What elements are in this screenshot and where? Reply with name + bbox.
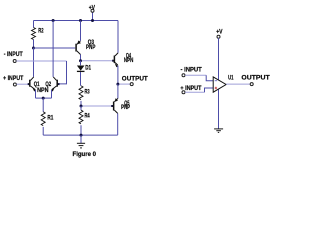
svg-text:R3: R3 — [85, 89, 91, 96]
wire Q2 emitter lead — [51, 90, 53, 98]
wire R1 bottom lead — [42, 127, 44, 135]
svg-text:OUTPUT: OUTPUT — [122, 75, 148, 82]
wire Q3 base — [34, 47, 76, 49]
wire -INPUT vertical to Q2 base — [58, 61, 67, 84]
terminal +INPUT right — [182, 91, 185, 94]
node rail-Q2col — [52, 19, 55, 22]
wire +V to op-amp — [218, 38, 220, 80]
wire R4 bottom lead — [80, 125, 82, 135]
node rail-Vstub — [91, 19, 94, 22]
node tail — [42, 97, 45, 100]
svg-text:D1: D1 — [85, 65, 91, 72]
node output — [116, 83, 119, 86]
diode D1 — [77, 66, 85, 72]
transistor Q4 — [114, 53, 119, 67]
wire Q3 emitter to rail — [80, 21, 82, 41]
wire Q2 collector column — [52, 21, 54, 77]
svg-text:+ INPUT: + INPUT — [3, 75, 23, 82]
terminal OUTPUT left — [130, 83, 133, 86]
wire Q4 emitter to output — [117, 66, 119, 85]
wire op-amp to ground — [218, 89, 220, 128]
resistor R1 — [41, 112, 45, 126]
wire Q5 collector down — [117, 113, 119, 135]
terminal -INPUT left — [13, 60, 16, 63]
transistor Q3 — [75, 40, 81, 54]
terminal +V left — [91, 9, 94, 12]
wire D1 cathode to R3 — [80, 72, 82, 86]
wire R3 bottom lead — [80, 101, 82, 106]
op-amp U1 — [213, 77, 226, 92]
svg-text:R1: R1 — [47, 114, 53, 121]
wire R4 top lead — [80, 106, 82, 110]
wire output stub — [119, 83, 130, 85]
terminal +INPUT left — [13, 83, 16, 86]
svg-text:PNP: PNP — [86, 44, 95, 51]
node ground — [80, 134, 83, 137]
wire Q1 emitter lead — [35, 90, 37, 98]
svg-text:R2: R2 — [38, 28, 44, 35]
svg-text:U1: U1 — [228, 75, 234, 82]
svg-text:+V: +V — [89, 5, 96, 12]
resistor R3 — [79, 86, 83, 100]
transistor Q2 — [51, 77, 58, 92]
svg-text:+V: +V — [216, 29, 223, 36]
ground left — [77, 135, 85, 148]
transistor Q5 — [113, 98, 118, 113]
wire bottom rail — [43, 134, 118, 136]
wire Q5 base — [83, 105, 113, 107]
node R3/R4/Q5base — [80, 105, 83, 108]
svg-text:Figure 0: Figure 0 — [73, 151, 97, 158]
wire top +V rail — [34, 20, 119, 22]
wire -input to op-amp — [185, 74, 206, 76]
svg-text:NPN: NPN — [37, 87, 49, 94]
wire right branch top — [117, 21, 119, 53]
node rail-Q3col — [79, 19, 82, 22]
svg-text:- INPUT: - INPUT — [181, 66, 202, 73]
resistor R2 — [32, 28, 36, 40]
wire +input to op-amp — [185, 91, 204, 93]
wire R2 bottom lead — [33, 40, 35, 49]
wire +INPUT to Q1 base — [17, 83, 30, 85]
wire emitter tail join — [36, 97, 52, 99]
wire D1 anode lead — [80, 61, 82, 66]
svg-text:OUTPUT: OUTPUT — [241, 74, 269, 81]
resistor R4 — [79, 110, 83, 124]
wire R2 top lead — [33, 21, 35, 28]
terminal OUTPUT right — [250, 83, 253, 86]
svg-text:NPN: NPN — [124, 57, 134, 64]
wire tail to R1 — [42, 98, 44, 112]
node R2/Q3base/Q1coll — [32, 47, 35, 50]
wire output to Q5 emitter — [117, 84, 119, 98]
terminal -INPUT right — [182, 74, 185, 77]
svg-text:PNP: PNP — [121, 104, 130, 111]
node Q3coll/D1/Q4base — [79, 59, 82, 62]
transistor Q1 — [29, 77, 36, 92]
wire +V stub — [92, 13, 94, 21]
wire Q1 collector column — [33, 48, 35, 77]
wire Q4 base — [82, 60, 114, 62]
wire -INPUT horizontal — [16, 60, 66, 62]
svg-text:- INPUT: - INPUT — [4, 51, 23, 58]
svg-text:R4: R4 — [85, 112, 91, 119]
wire op-amp output — [226, 83, 250, 85]
wire Q3 collector lead — [80, 55, 82, 61]
ground right — [214, 129, 223, 133]
terminal +V right — [217, 35, 220, 38]
